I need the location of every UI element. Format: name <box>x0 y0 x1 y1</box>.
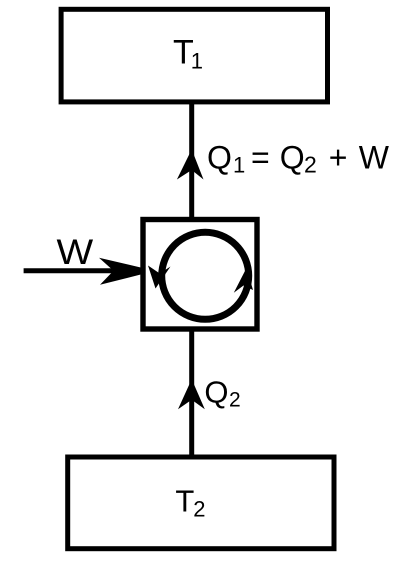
svg-text:Q: Q <box>204 374 228 409</box>
svg-text:W: W <box>57 233 94 272</box>
svg-text:T: T <box>175 484 194 519</box>
arrowhead Q1 (pointing up) <box>177 149 204 179</box>
hot reservoir box T1 <box>61 9 327 102</box>
svg-text:1: 1 <box>191 49 203 74</box>
wire Q1 (vertical line from T1 to cycle box) <box>189 101 194 221</box>
cycle circle <box>162 232 249 319</box>
svg-text:2: 2 <box>229 389 241 412</box>
wire W (horizontal input line) <box>24 268 118 273</box>
cold reservoir box T2 <box>68 457 334 549</box>
wire Q2 (vertical line from cycle box to T2) <box>189 327 194 456</box>
arrowhead Q2 (pointing up) <box>178 379 205 409</box>
circle arrowhead right (pointing up) <box>234 268 253 293</box>
svg-text:2: 2 <box>193 497 205 522</box>
arrowhead W (pointing right) <box>99 258 141 285</box>
circle arrowhead left (pointing down-left) <box>148 266 171 289</box>
cycle box (compressor) <box>143 220 257 330</box>
